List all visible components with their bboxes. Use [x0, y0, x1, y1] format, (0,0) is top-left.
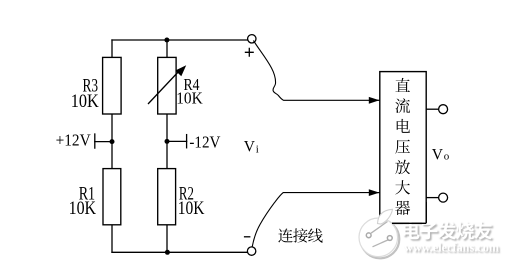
arrowhead top input: [369, 97, 380, 104]
amplifier box edge redraw: [392, 202, 426, 223]
wire R2 to bottom: [166, 225, 168, 253]
svg-text:+12V: +12V: [56, 131, 91, 150]
wire +12V feed: [95, 141, 112, 143]
terminal tick -12V: [186, 135, 188, 148]
amplifier box U1: [380, 72, 426, 224]
wire output top: [426, 108, 438, 110]
svg-text:10K: 10K: [176, 88, 203, 107]
wire curve from - to amplifier: [252, 193, 370, 247]
svg-text:V: V: [244, 139, 256, 156]
wire R1 to bottom: [111, 225, 113, 253]
label -: [244, 236, 251, 238]
label 连接线: [278, 228, 322, 242]
junction top node: [164, 38, 169, 43]
R4 adjustment arrow: [148, 65, 186, 104]
watermark logo circle: [359, 209, 399, 258]
wire top: [112, 39, 248, 41]
wire curve from + to amplifier: [253, 41, 370, 101]
wire bottom: [112, 251, 247, 253]
label +: [245, 48, 254, 57]
amplifier label 直流电压放大器: [395, 78, 410, 215]
wire R3 to node A: [111, 114, 113, 169]
wire mid vertical top: [166, 40, 168, 57]
terminal + (open circle): [248, 35, 256, 43]
wire output bottom: [426, 197, 438, 199]
resistor R4 (adjustable): [158, 57, 176, 114]
resistor R1: [103, 169, 121, 225]
terminal tick +12V: [94, 134, 96, 148]
resistor R2: [158, 169, 176, 225]
svg-text:-12V: -12V: [189, 133, 220, 152]
svg-text:www.elecfans.com: www.elecfans.com: [404, 240, 499, 255]
terminal - (open circle): [247, 247, 255, 255]
svg-text:o: o: [444, 151, 450, 163]
svg-text:10K: 10K: [71, 91, 99, 112]
resistor R3: [103, 57, 122, 114]
junction bottom node: [165, 250, 170, 255]
terminal output bottom: [439, 193, 448, 202]
arrowhead bottom input: [369, 189, 380, 196]
wire -12V feed: [167, 140, 187, 142]
svg-text:10K: 10K: [69, 198, 97, 219]
terminal output top: [439, 105, 448, 114]
svg-text:V: V: [432, 147, 444, 164]
junction node A (+12V): [110, 139, 115, 144]
watermark text 电子发烧友: [403, 221, 494, 241]
junction node B (-12V): [165, 139, 170, 144]
wire left vertical top: [111, 40, 113, 57]
svg-text:i: i: [256, 143, 259, 155]
svg-text:10K: 10K: [178, 198, 205, 219]
watermark url www.elecfans.com: [404, 240, 501, 256]
wire R4 to node B: [166, 114, 168, 169]
